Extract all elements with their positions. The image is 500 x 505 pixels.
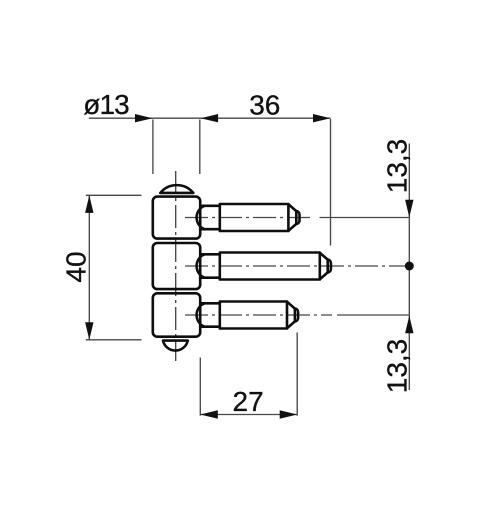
svg-text:ø13: ø13 [83, 89, 129, 120]
arrow 40 up [85, 195, 93, 213]
reference line top pin centerline to dim [320, 217, 410, 219]
extension line right of barrel (o13/36) [199, 120, 201, 175]
svg-text:27: 27 [233, 386, 264, 417]
arrow o13 left [135, 114, 153, 122]
dimension line o13+36 [89, 117, 331, 119]
knuckle 1 [153, 197, 200, 239]
arrow 36 right [313, 114, 331, 122]
extension line 36 right at pin tip [330, 119, 332, 246]
centerline bottom pin [185, 314, 332, 316]
reference line bottom pin centerline to dim [337, 314, 409, 316]
extension line left of barrel (o13) [152, 120, 154, 175]
extension line 27 right [296, 333, 298, 416]
dimension line 13,3 vertical [408, 144, 410, 391]
dimension line 40 [88, 195, 90, 339]
dimension line 27 [200, 414, 297, 416]
svg-text:13,3: 13,3 [382, 139, 413, 194]
extension line 27 left [199, 358, 201, 416]
top pin [197, 204, 300, 231]
arrow 27 left [200, 410, 218, 418]
arrow 27 right [280, 410, 298, 418]
arrow shared middle [201, 114, 219, 122]
bottom dome cap [163, 341, 188, 351]
svg-text:36: 36 [249, 89, 280, 120]
knuckle 2 [153, 243, 200, 289]
reference dot [405, 262, 414, 271]
extension line 40 bottom [86, 339, 142, 341]
bottom pin [197, 302, 299, 329]
centerline middle pin [185, 265, 405, 267]
svg-text:40: 40 [61, 251, 92, 282]
knuckle 3 [153, 293, 200, 336]
arrow 13,3 up [405, 316, 413, 334]
arrow 13,3 down [405, 200, 413, 218]
centerline top pin [185, 217, 312, 219]
middle pin [197, 253, 331, 280]
extension line 40 top [86, 194, 142, 196]
centerline barrel vertical [175, 171, 177, 361]
svg-text:13,3: 13,3 [382, 339, 413, 394]
arrow 40 down [85, 322, 93, 340]
top dome cap [160, 185, 193, 193]
